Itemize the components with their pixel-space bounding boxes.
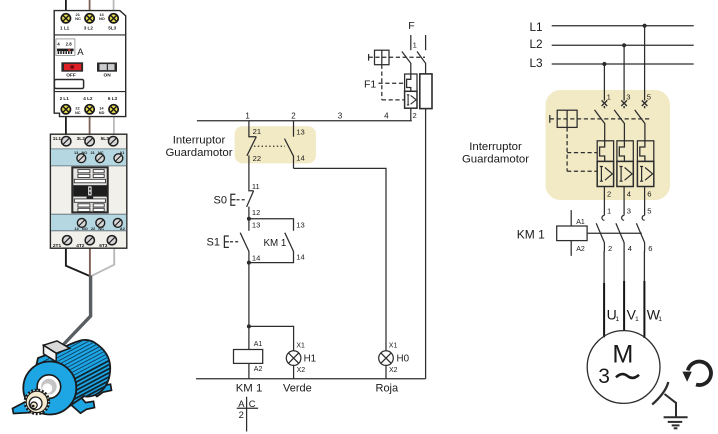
earth connection bbox=[665, 394, 677, 417]
km1 coil power bbox=[557, 210, 587, 256]
label KM 1 power bbox=[517, 227, 545, 241]
svg-text:4 L2: 4 L2 bbox=[83, 96, 93, 101]
svg-text:Verde: Verde bbox=[283, 382, 312, 394]
motor fins bbox=[29, 329, 128, 414]
svg-text:F1: F1 bbox=[364, 79, 376, 91]
wire stub fuse top bbox=[425, 35, 427, 50]
svg-text:1: 1 bbox=[607, 207, 611, 216]
pin labels A1 A2 km1 bbox=[576, 219, 585, 253]
svg-text:4: 4 bbox=[384, 111, 389, 120]
svg-text:L2: L2 bbox=[530, 37, 543, 51]
motor front face bbox=[23, 362, 76, 415]
terminal X pole2 bbox=[621, 100, 627, 108]
contactor aux screws upper bbox=[77, 154, 123, 163]
svg-text:4: 4 bbox=[628, 244, 632, 253]
contactor aux screws lower bbox=[77, 219, 122, 228]
wire brown contactor to splice bbox=[89, 248, 91, 276]
svg-text:6 L3: 6 L3 bbox=[108, 96, 118, 101]
breaker terminal screw 1L1 top bbox=[61, 14, 70, 23]
svg-text:L1: L1 bbox=[530, 20, 543, 34]
wire gray contactor to splice bbox=[91, 248, 114, 276]
thermal element pole1 bbox=[597, 141, 613, 162]
svg-text:2 L1: 2 L1 bbox=[60, 96, 70, 101]
pin labels 13 13 bbox=[252, 221, 305, 230]
label L1 L2 L3 bbox=[530, 20, 544, 70]
svg-text:1: 1 bbox=[615, 316, 619, 323]
wire black contactor to splice bbox=[66, 248, 90, 276]
wire L2 bbox=[552, 44, 694, 46]
svg-text:14: 14 bbox=[296, 253, 304, 262]
svg-text:A2: A2 bbox=[254, 366, 263, 373]
contact KM1 aux NO bbox=[249, 233, 294, 263]
svg-text:2: 2 bbox=[291, 111, 296, 120]
breaker bottom stubs bbox=[604, 187, 644, 216]
svg-text:L3: L3 bbox=[530, 56, 544, 70]
motor gear bbox=[25, 390, 49, 414]
contactor blue band lower bbox=[51, 214, 126, 231]
wire coil to bus bbox=[248, 363, 250, 378]
breaker blade pole2 bbox=[614, 110, 624, 141]
svg-text:1: 1 bbox=[635, 316, 639, 323]
svg-text:NO: NO bbox=[99, 16, 105, 21]
svg-text:14: 14 bbox=[296, 154, 304, 163]
pin labels 1 3 5 breaker bbox=[607, 92, 651, 101]
svg-text:X2: X2 bbox=[297, 367, 306, 374]
svg-text:3: 3 bbox=[626, 92, 630, 101]
branch wire to H1 bbox=[249, 326, 294, 351]
actuator box F1 bbox=[369, 50, 389, 64]
pin labels X1 X2 H0 bbox=[389, 342, 410, 374]
guardamotor device body bbox=[54, 11, 126, 117]
junction node bottom bbox=[247, 261, 251, 265]
breaker bottom terminal labels bbox=[60, 96, 118, 115]
right return wire from fuse bbox=[425, 109, 427, 379]
labels U1 V1 W1 bbox=[607, 307, 663, 323]
pin labels X1 X2 H1 bbox=[296, 342, 316, 374]
breaker slot window bbox=[54, 80, 83, 89]
motor right feet bbox=[71, 378, 112, 414]
wire L1 drop bbox=[644, 26, 646, 101]
S1 actuator bbox=[224, 236, 239, 247]
pin label 1 (F1) bbox=[413, 41, 417, 50]
svg-text:4: 4 bbox=[627, 189, 631, 198]
pin labels 14 14 bbox=[252, 253, 305, 263]
svg-text:F: F bbox=[408, 20, 414, 32]
breaker terminal screw 6T3 bottom bbox=[109, 105, 118, 114]
terminal X pole1 bbox=[602, 100, 608, 108]
node L2 tap bbox=[622, 43, 626, 47]
svg-text:1: 1 bbox=[607, 92, 611, 101]
wire black breaker to contactor bbox=[65, 116, 67, 135]
pin labels 21 22 bbox=[253, 127, 261, 163]
breaker blade pole3 bbox=[635, 110, 645, 141]
svg-text:NC: NC bbox=[75, 110, 81, 115]
svg-text:H1: H1 bbox=[304, 353, 317, 364]
bottom bus wire bbox=[196, 378, 426, 380]
pin labels 2 4 6 km1 bbox=[608, 244, 652, 253]
svg-text:6: 6 bbox=[648, 244, 652, 253]
label KM 1 coil bbox=[236, 383, 263, 395]
dashed link to magnetic F1 bbox=[382, 99, 405, 101]
km1 blade pole3 bbox=[636, 223, 644, 251]
motor hub bbox=[37, 375, 61, 399]
contactor aux labels upper bbox=[74, 150, 125, 155]
svg-text:22: 22 bbox=[253, 154, 261, 163]
dashed coupling power bbox=[550, 118, 650, 120]
magnetic element pole1 bbox=[597, 161, 613, 186]
svg-text:2: 2 bbox=[413, 111, 417, 120]
label S0 bbox=[214, 195, 227, 207]
svg-text:3 L2: 3 L2 bbox=[84, 26, 94, 31]
svg-text:S0: S0 bbox=[214, 195, 227, 207]
wire L3 drop bbox=[603, 64, 605, 101]
contactor bottom labels bbox=[53, 243, 108, 249]
breaker blade fuse pole bbox=[417, 52, 426, 74]
breaker blade pole1 bbox=[595, 110, 605, 141]
label Verde bbox=[283, 382, 312, 394]
svg-text:KM 1: KM 1 bbox=[517, 227, 545, 241]
contactor aux labels lower bbox=[74, 226, 125, 231]
pin labels 13 14 bbox=[296, 127, 304, 162]
breaker terminal screw 2T1 bottom bbox=[61, 105, 70, 114]
svg-text:S1: S1 bbox=[207, 237, 220, 249]
svg-text:6T3: 6T3 bbox=[99, 243, 108, 249]
km1 contact hook pole3 bbox=[642, 215, 644, 220]
motor M3~ bbox=[587, 331, 660, 404]
svg-text:Guardamotor: Guardamotor bbox=[165, 147, 232, 159]
contactor top labels bbox=[53, 136, 109, 142]
dashed link to thermal F1 bbox=[379, 82, 405, 84]
S0 actuator bbox=[231, 194, 247, 205]
svg-text:5: 5 bbox=[647, 207, 651, 216]
fuse F body bbox=[420, 74, 432, 109]
OFF button bbox=[61, 62, 83, 71]
svg-text:ON: ON bbox=[104, 73, 112, 79]
svg-text:11: 11 bbox=[252, 182, 260, 191]
motor left foot bbox=[13, 402, 33, 414]
thermal element F1 bbox=[405, 74, 417, 91]
actuator box power bbox=[550, 110, 577, 127]
magnetic element pole3 bbox=[637, 161, 653, 186]
wire L3 bbox=[552, 63, 694, 65]
svg-text:12: 12 bbox=[252, 208, 260, 217]
contactor blue band upper bbox=[51, 149, 126, 166]
svg-text:Guardamotor: Guardamotor bbox=[462, 153, 529, 165]
contact 21-22 guardamotor aux NC bbox=[247, 121, 256, 190]
node L3 tap bbox=[602, 62, 606, 66]
label F bbox=[408, 20, 414, 32]
coil KM1 bbox=[234, 350, 263, 364]
svg-text:C: C bbox=[249, 398, 256, 409]
pin labels 2 4 6 breaker bbox=[607, 189, 651, 198]
svg-text:Interruptor: Interruptor bbox=[173, 135, 226, 147]
wire L3 gray top bbox=[113, 0, 115, 11]
label ON bbox=[104, 73, 112, 79]
svg-text:A2: A2 bbox=[120, 226, 126, 231]
label Interruptor Guardamotor (power) bbox=[462, 141, 529, 165]
svg-text:5: 5 bbox=[647, 92, 651, 101]
motor cable bbox=[63, 276, 91, 346]
svg-text:6: 6 bbox=[647, 189, 651, 198]
lamp H0 bbox=[379, 351, 394, 366]
dashed link to thermal power bbox=[567, 152, 597, 154]
label S1 bbox=[207, 237, 220, 249]
svg-text:3: 3 bbox=[598, 365, 610, 388]
svg-text:X1: X1 bbox=[389, 342, 398, 349]
wire brown breaker to contactor bbox=[89, 116, 91, 135]
svg-text:KM 1: KM 1 bbox=[236, 383, 263, 395]
junction node top bbox=[247, 217, 251, 221]
label OFF bbox=[66, 73, 76, 79]
pin label 12 bbox=[252, 208, 260, 217]
pushbutton S1 NO bbox=[240, 219, 249, 263]
top bus wire bbox=[197, 120, 412, 122]
svg-text:A1: A1 bbox=[254, 341, 263, 348]
svg-text:H0: H0 bbox=[397, 353, 410, 364]
svg-text:13: 13 bbox=[296, 221, 304, 230]
yellow highlight interruptor guardamotor (control) bbox=[235, 126, 316, 163]
svg-text:A1: A1 bbox=[576, 219, 585, 226]
node L1 tap bbox=[643, 24, 647, 28]
svg-text:2T1: 2T1 bbox=[53, 243, 62, 249]
contactor device body bbox=[50, 134, 126, 248]
rotation arrow bbox=[682, 362, 711, 386]
svg-text:ND: ND bbox=[99, 110, 105, 115]
wire H1 to bus bbox=[293, 365, 295, 378]
ground symbol bbox=[664, 417, 688, 428]
main rail down bbox=[248, 263, 250, 350]
svg-text:A2: A2 bbox=[576, 246, 585, 253]
svg-text:X1: X1 bbox=[296, 342, 305, 349]
dashed actuator drop power bbox=[566, 127, 568, 171]
svg-text:NC: NC bbox=[75, 16, 81, 21]
pin label 2 (F1) bbox=[413, 111, 417, 120]
wire L2 brown top bbox=[89, 0, 91, 11]
svg-text:1 L1: 1 L1 bbox=[60, 26, 70, 31]
yellow highlight interruptor guardamotor (power) bbox=[546, 90, 671, 200]
svg-text:1L1: 1L1 bbox=[53, 136, 62, 142]
svg-text:14: 14 bbox=[252, 254, 260, 263]
wire numbers 1 2 3 4 bbox=[245, 111, 389, 120]
label A bbox=[77, 47, 84, 58]
earth clamp curve bbox=[652, 382, 668, 405]
km1 blade pole1 bbox=[596, 223, 604, 251]
wire L2 drop bbox=[623, 45, 625, 100]
svg-text:1: 1 bbox=[658, 316, 662, 323]
svg-text:4T2: 4T2 bbox=[76, 243, 85, 249]
breaker terminal screw 4T2 bottom bbox=[85, 105, 94, 114]
wire H0 to bus bbox=[385, 365, 387, 378]
svg-text:NO: NO bbox=[82, 150, 88, 155]
wire F1 to bus bbox=[410, 108, 412, 121]
label KM 1 aux bbox=[264, 238, 287, 249]
svg-text:Interruptor: Interruptor bbox=[469, 141, 522, 153]
breaker top terminal labels bbox=[60, 12, 117, 31]
thermal element pole3 bbox=[637, 141, 653, 162]
lamp H1 bbox=[286, 351, 301, 366]
breaker dial bbox=[56, 39, 75, 56]
svg-text:2: 2 bbox=[608, 244, 612, 253]
svg-text:3: 3 bbox=[627, 207, 631, 216]
svg-text:A1: A1 bbox=[120, 150, 126, 155]
svg-text:M: M bbox=[612, 340, 633, 368]
svg-text:13: 13 bbox=[252, 221, 260, 230]
svg-text:3L2: 3L2 bbox=[77, 136, 86, 142]
dashed link to magnetic power bbox=[567, 170, 597, 172]
svg-text:2: 2 bbox=[239, 409, 244, 420]
svg-text:A: A bbox=[238, 398, 245, 409]
wire L1 bbox=[552, 25, 694, 27]
contactor bottom screws bbox=[63, 236, 117, 245]
svg-text:1: 1 bbox=[245, 111, 250, 120]
dotted coupling contacts bbox=[254, 145, 285, 147]
magnetic element F1 bbox=[405, 91, 417, 108]
svg-text:5L3: 5L3 bbox=[108, 26, 116, 31]
contactor mechanism bbox=[72, 167, 107, 212]
contact reference table A C 2 bbox=[237, 397, 258, 432]
svg-text:21: 21 bbox=[253, 127, 261, 136]
motor terminal box bbox=[44, 341, 70, 362]
svg-text:1: 1 bbox=[413, 41, 417, 50]
pin label 11 bbox=[252, 182, 260, 191]
terminal X pole3 bbox=[642, 100, 648, 108]
magnetic element pole2 bbox=[617, 161, 633, 186]
thermal element pole2 bbox=[617, 141, 633, 162]
pushbutton S0 NC bbox=[247, 189, 254, 218]
pin labels 1 3 5 km1 bbox=[607, 207, 651, 216]
svg-text:Roja: Roja bbox=[376, 382, 400, 394]
dashed actuator drop F1 bbox=[381, 65, 383, 100]
svg-text:3: 3 bbox=[338, 111, 343, 120]
svg-text:13: 13 bbox=[296, 127, 304, 136]
wire L1 black top bbox=[65, 0, 67, 11]
svg-text:OFF: OFF bbox=[66, 73, 76, 79]
svg-text:2: 2 bbox=[607, 189, 611, 198]
breaker terminal screw 5L3 top bbox=[109, 14, 118, 23]
label Interruptor Guardamotor (control) bbox=[165, 135, 232, 160]
svg-text:NC: NC bbox=[98, 226, 104, 231]
km1 mechanical link bbox=[587, 232, 642, 234]
label F1 bbox=[364, 79, 376, 91]
label Roja bbox=[376, 382, 400, 394]
svg-text:KM 1: KM 1 bbox=[264, 238, 287, 249]
junction node lamp branch bbox=[247, 324, 251, 328]
dashed coupling F1 bbox=[369, 56, 425, 58]
ON button bbox=[97, 63, 117, 72]
svg-text:NC: NC bbox=[98, 150, 104, 155]
km1 contact hook pole2 bbox=[622, 215, 624, 220]
wire 14 to H0 bbox=[294, 168, 387, 350]
svg-text:A: A bbox=[77, 47, 84, 58]
breaker terminal screw 3L2 top bbox=[85, 14, 94, 23]
pin labels A1 A2 bbox=[254, 341, 263, 373]
svg-text:X2: X2 bbox=[389, 367, 398, 374]
svg-text:2.8: 2.8 bbox=[66, 41, 73, 46]
svg-text:5L3: 5L3 bbox=[101, 136, 110, 142]
wire stub pole1 top bbox=[410, 35, 412, 50]
svg-text:NO: NO bbox=[82, 226, 88, 231]
branch wire to KM1 aux bbox=[249, 219, 294, 231]
contactor top screws bbox=[61, 137, 117, 146]
km1 blade pole2 bbox=[616, 223, 624, 251]
motor feed wires bbox=[604, 251, 644, 284]
breaker blade F1 pole bbox=[402, 52, 411, 74]
contact 13-14 guardamotor aux NO bbox=[285, 121, 294, 169]
km1 contact hook pole1 bbox=[602, 215, 604, 220]
wire gray breaker to contactor bbox=[113, 116, 115, 135]
